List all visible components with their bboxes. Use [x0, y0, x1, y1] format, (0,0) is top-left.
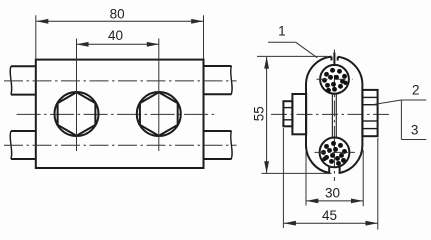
extension line left for dim 80	[35, 15, 37, 59]
dimension 30	[306, 199, 363, 204]
extension line bottom for dim 55	[262, 172, 332, 174]
dimension 80	[36, 19, 203, 24]
extension line left for dim 30	[305, 150, 307, 206]
clamp body (side view, stadium outline right half)	[338, 57, 363, 173]
bolt axis center line (side view)	[271, 113, 389, 115]
extension line top for dim 55	[257, 55, 327, 57]
svg-text:40: 40	[108, 28, 123, 43]
seam lines between clamp halves	[332, 94, 336, 138]
label 1 leader	[296, 42, 318, 58]
seam gap line at top notch	[333, 53, 335, 67]
label 2-3 connector	[400, 100, 402, 140]
svg-text:30: 30	[325, 186, 340, 201]
vertical center line (side view)	[333, 50, 335, 182]
svg-text:45: 45	[322, 208, 337, 223]
washer (side view, left)	[292, 94, 306, 134]
top conductor strand dots	[322, 68, 348, 93]
top conductor horizontal center line	[317, 78, 354, 80]
bolt hex head (side view, left)	[283, 101, 292, 126]
extension line right for dim 45	[377, 138, 379, 230]
svg-text:80: 80	[110, 7, 125, 22]
label 3 underline	[401, 139, 426, 141]
bottom conductor cross-section circle	[320, 138, 350, 168]
bottom conductor stub left	[10, 131, 36, 159]
bottom conductor stub right	[204, 131, 233, 159]
dimension 45	[284, 221, 378, 226]
label 2 underline	[401, 99, 426, 101]
nut and washer stack (side view, right)	[362, 90, 377, 136]
dimension 55	[264, 57, 269, 174]
label 1 underline	[268, 41, 296, 43]
svg-text:55: 55	[252, 106, 267, 121]
bolt 1 vertical center/extension line	[76, 39, 78, 152]
bolt 1 (hex head with chamfer circle)	[55, 92, 99, 136]
label 2 leader	[373, 100, 402, 105]
bolt 2 (hex head with chamfer circle)	[137, 92, 181, 136]
bottom conductor horizontal center line	[315, 151, 355, 153]
dimension 40	[77, 42, 159, 47]
svg-text:3: 3	[411, 123, 419, 138]
bottom conductor center line	[4, 144, 237, 146]
bottom conductor strand dots	[321, 141, 347, 166]
extension line right for dim 30	[362, 150, 364, 206]
top conductor center line	[4, 80, 237, 82]
svg-text:2: 2	[412, 82, 420, 97]
top conductor stub right	[204, 66, 233, 94]
top conductor stub left	[10, 66, 36, 94]
extension line right for dim 80	[203, 15, 205, 59]
svg-text:1: 1	[278, 24, 286, 39]
clamp body (side view, stadium outline left half)	[306, 57, 332, 173]
top conductor cross-section circle	[320, 65, 349, 94]
bolts axis center line (front view)	[17, 113, 218, 115]
extension line left for dim 45	[282, 128, 284, 228]
clamp body (front view)	[36, 60, 204, 168]
bolt 2 vertical center/extension line	[158, 39, 160, 152]
